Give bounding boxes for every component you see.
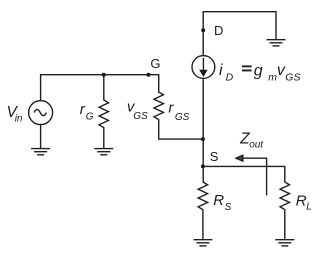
- svg-text:Zout: Zout: [239, 131, 264, 151]
- wire: rGS bottom lead over to drain line: [159, 120, 203, 139]
- resistor rG: [99, 75, 108, 148]
- wire: source node S to RL top: [203, 165, 285, 167]
- node S dot: [201, 164, 205, 168]
- Zout arrow: [236, 155, 267, 195]
- wire: top rail from Vin to gate, bending down to rGS top: [41, 75, 159, 101]
- wire: drain-source vertical line below current source: [202, 78, 204, 182]
- node G dot: [146, 73, 150, 77]
- wire: Vin bottom lead to ground: [40, 125, 42, 149]
- svg-text:Vin: Vin: [7, 104, 23, 125]
- voltage source Vin: [29, 101, 53, 125]
- svg-text:RL: RL: [296, 193, 312, 213]
- resistor RL: [280, 166, 289, 239]
- ground under Vin: [31, 149, 50, 155]
- svg-text:iDgmvGS: iDgmvGS: [219, 62, 300, 83]
- ground under RS: [193, 240, 212, 246]
- svg-text:G: G: [150, 56, 160, 71]
- svg-text:RS: RS: [213, 192, 231, 213]
- junction dot at rG top: [102, 73, 106, 77]
- svg-text:D: D: [214, 23, 223, 38]
- wire: drain top: from current source up, over to right ground: [203, 12, 276, 56]
- junction dot rGS-drain: [201, 137, 205, 141]
- ground under rG: [94, 149, 113, 155]
- equals sign in iD equation: [242, 66, 252, 70]
- ground under RL: [275, 240, 294, 246]
- svg-text:vGS: vGS: [127, 99, 148, 122]
- node D dot: [201, 28, 205, 32]
- ground top right: [267, 40, 286, 46]
- svg-text:rG: rG: [80, 101, 94, 123]
- svg-text:S: S: [210, 149, 219, 164]
- resistor RS: [198, 182, 207, 239]
- resistor rGS: [154, 92, 163, 120]
- svg-text:rGS: rGS: [168, 100, 189, 123]
- current source iD: [192, 56, 215, 79]
